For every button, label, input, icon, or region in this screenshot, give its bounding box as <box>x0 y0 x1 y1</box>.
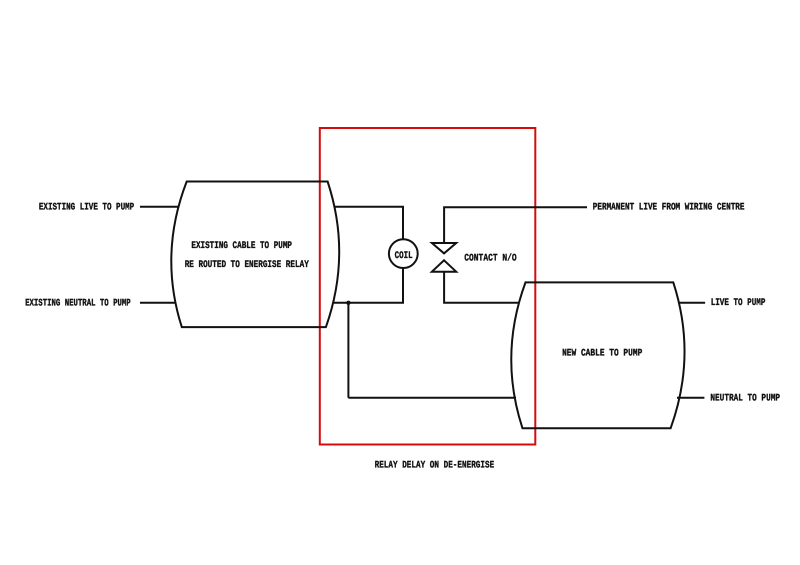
cable symbol: NEW CABLE TO PUMP <box>511 282 684 428</box>
svg-text:EXISTING CABLE TO PUMP: EXISTING CABLE TO PUMP <box>191 241 292 252</box>
wire: cable to coil top <box>335 207 404 240</box>
wire: neutral to pump lead <box>677 397 704 399</box>
wire: bottom neutral to new cable <box>348 397 516 399</box>
contact N/O lower triangle <box>432 260 456 271</box>
svg-text:NEW CABLE TO PUMP: NEW CABLE TO PUMP <box>562 348 642 359</box>
svg-text:EXISTING LIVE TO PUMP: EXISTING LIVE TO PUMP <box>39 202 134 213</box>
wire: live to pump lead <box>678 302 705 304</box>
svg-text:CONTACT N/O: CONTACT N/O <box>464 253 516 265</box>
cable symbol: EXISTING CABLE TO PUMP <box>171 182 339 328</box>
relay boundary box (red) <box>320 128 536 445</box>
wire: permanent live to contact <box>444 207 587 243</box>
svg-text:RE ROUTED TO ENERGISE RELAY: RE ROUTED TO ENERGISE RELAY <box>185 260 309 271</box>
junction node <box>346 301 350 305</box>
svg-text:PERMANENT LIVE FROM WIRING CEN: PERMANENT LIVE FROM WIRING CENTRE <box>593 202 745 213</box>
coil circle <box>389 239 418 268</box>
wire: contact bottom to new cable <box>444 272 519 303</box>
contact N/O upper triangle <box>432 243 456 253</box>
wire: existing live lead <box>140 206 179 208</box>
svg-text:COIL: COIL <box>395 251 413 262</box>
svg-text:EXISTING NEUTRAL TO PUMP: EXISTING NEUTRAL TO PUMP <box>25 298 131 309</box>
svg-text:NEUTRAL TO PUMP: NEUTRAL TO PUMP <box>710 393 780 404</box>
wire: coil bottom to cable <box>334 268 404 303</box>
wire: junction down <box>347 303 349 398</box>
wire: existing neutral lead <box>140 302 176 304</box>
svg-text:LIVE TO PUMP: LIVE TO PUMP <box>711 298 766 309</box>
svg-text:RELAY DELAY ON DE-ENERGISE: RELAY DELAY ON DE-ENERGISE <box>375 460 495 471</box>
